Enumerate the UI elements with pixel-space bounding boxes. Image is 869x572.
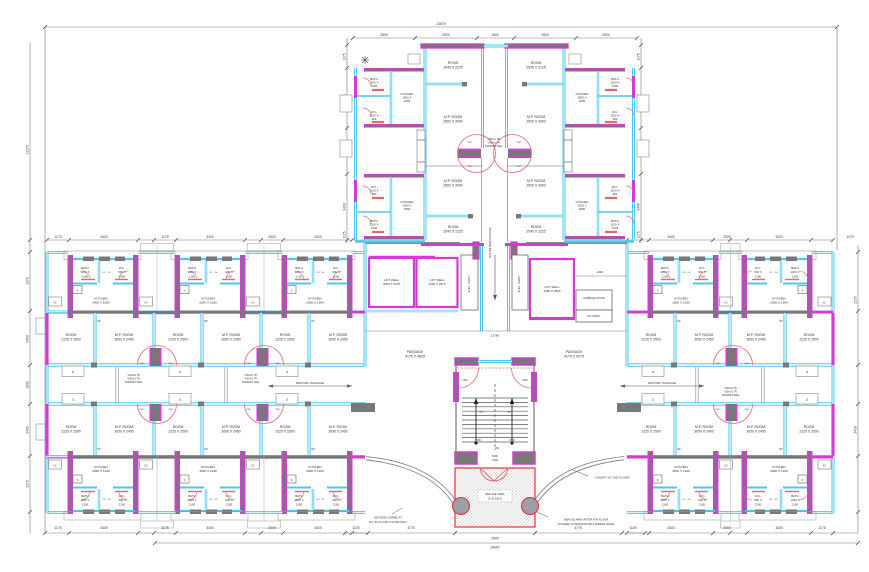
svg-text:S: S xyxy=(657,289,659,293)
svg-text:1800 MM. PASSAGE: 1800 MM. PASSAGE xyxy=(648,381,676,385)
unit L1 wall xyxy=(69,456,138,459)
svg-text:KC: KC xyxy=(724,303,728,305)
svg-text:1100: 1100 xyxy=(629,526,636,530)
unit R1 wall column xyxy=(648,451,654,514)
left wing west exterior wall xyxy=(46,252,49,513)
top wing west apartment room label xyxy=(443,225,462,233)
unit R1 bath door sill xyxy=(661,279,675,281)
recess R1/R2 kc box xyxy=(720,297,733,306)
svg-text:KC: KC xyxy=(144,303,148,305)
svg-text:2500 X 3000: 2500 X 3000 xyxy=(443,183,462,187)
top wing east apartment landing duct xyxy=(564,130,572,172)
unit L2/L3 pro labels xyxy=(247,363,281,411)
right wing wall magenta xyxy=(627,456,649,459)
top wing west apartment kitchen label xyxy=(401,92,414,103)
unit L1 top ledge xyxy=(64,251,141,260)
svg-text:1200: 1200 xyxy=(371,226,378,230)
unit R2 wall column xyxy=(807,255,813,318)
svg-text:2450: 2450 xyxy=(26,426,30,434)
west balcony box xyxy=(36,424,45,440)
unit R1 bottom window sill xyxy=(653,510,715,512)
unit L3 wall column xyxy=(347,451,353,514)
svg-text:2500: 2500 xyxy=(602,33,610,37)
svg-text:KC: KC xyxy=(53,466,57,468)
unit L1 bath door arc xyxy=(81,491,90,500)
svg-text:S: S xyxy=(184,478,186,482)
unit L1 window xyxy=(115,510,125,515)
unit L2/L3 party wall xyxy=(259,313,262,349)
center top wall xyxy=(526,242,627,244)
parapet wall line xyxy=(116,367,118,403)
svg-text:1200: 1200 xyxy=(612,84,619,88)
unit L1 door jamb xyxy=(91,402,97,407)
unit L3 bath label xyxy=(294,266,303,278)
svg-text:2545 X 2225: 2545 X 2225 xyxy=(443,229,462,233)
recess R1/R2 kc box xyxy=(720,460,733,469)
top wing east apartment door sill xyxy=(605,197,617,199)
unit R1/R2 upper door swing xyxy=(714,346,753,366)
recess L1/L2 kc box xyxy=(140,297,153,306)
unit L3 wall column xyxy=(282,451,288,514)
svg-text:3050 X 2450: 3050 X 2450 xyxy=(694,337,713,341)
top wing west apartment wall xyxy=(357,211,391,213)
svg-text:P.P. SHAFT: P.P. SHAFT xyxy=(588,315,601,318)
unit R2 top ledge xyxy=(739,251,816,260)
svg-text:1175: 1175 xyxy=(637,53,641,60)
right wing bottom dimension xyxy=(625,526,858,535)
unit L1 window xyxy=(83,257,94,262)
unit R2 shaft box xyxy=(798,286,807,294)
recess L2/L3 top box xyxy=(248,244,281,251)
svg-text:2000: 2000 xyxy=(268,526,276,530)
svg-text:2225 X 2500: 2225 X 2500 xyxy=(61,337,80,341)
east kc box xyxy=(818,460,831,469)
unit L1/L2 upper door block xyxy=(150,348,162,366)
top wing west apartment bath label xyxy=(370,77,379,88)
svg-text:PRO: PRO xyxy=(716,363,721,365)
svg-text:2000 X 1500: 2000 X 1500 xyxy=(770,301,788,305)
top wing east apartment door arc xyxy=(626,186,634,194)
svg-text:2000 X 2375: 2000 X 2375 xyxy=(383,282,400,286)
svg-text:1175: 1175 xyxy=(637,231,641,238)
top wing east apartment door sill xyxy=(605,89,617,91)
top wing east apartment wc label xyxy=(611,185,620,196)
unit R2 d3 d4 labels xyxy=(770,272,779,274)
unit R2 wc label xyxy=(754,494,762,506)
parapet wall note xyxy=(242,374,261,384)
unit L3 room divider wall xyxy=(307,406,310,455)
top wing west dimension xyxy=(343,38,350,243)
recess L2/L3 bottom box xyxy=(248,521,281,528)
unit L2 mp room label xyxy=(221,425,240,433)
unit R2 bath wall xyxy=(783,283,807,285)
svg-text:13.15 SQ.M.: 13.15 SQ.M. xyxy=(487,497,502,501)
unit L2 wc door sill xyxy=(222,491,235,493)
west kc box xyxy=(49,297,62,306)
svg-text:PRO: PRO xyxy=(247,363,252,365)
svg-text:1200: 1200 xyxy=(612,226,619,230)
lift area bottom wall xyxy=(365,310,458,313)
unit L3 kitchen label xyxy=(306,297,324,305)
unit L2 wall column xyxy=(240,255,246,318)
svg-text:1100: 1100 xyxy=(82,274,89,278)
top wing west apartment wall xyxy=(390,71,392,124)
unit R2 window xyxy=(770,510,781,515)
right wing end door block xyxy=(617,403,641,412)
unit R2 kitchen label xyxy=(770,297,788,305)
svg-text:3050 X 1400: 3050 X 1400 xyxy=(672,469,690,473)
svg-text:1100: 1100 xyxy=(226,502,233,506)
svg-text:AT EVERY ALTERNATE MID-LANDING: AT EVERY ALTERNATE MID-LANDING LEVEL xyxy=(558,522,615,526)
unit R2 wc door sill xyxy=(752,279,765,281)
svg-text:FRD: FRD xyxy=(463,379,468,382)
unit L1 window xyxy=(99,510,110,515)
top wing east apartment pro label xyxy=(517,142,522,168)
svg-text:3400: 3400 xyxy=(667,235,675,239)
canopy note xyxy=(573,470,630,480)
top wing east apartment ledge box xyxy=(637,140,649,157)
svg-text:3050 X 2450: 3050 X 2450 xyxy=(746,429,765,433)
unit L2 bath label xyxy=(187,266,196,278)
recess L2/L3 boundary line xyxy=(263,246,265,311)
unit L3 bath door arc xyxy=(295,271,304,280)
right dimension line xyxy=(854,245,861,533)
svg-text:KC: KC xyxy=(144,466,148,468)
svg-text:PRO: PRO xyxy=(140,409,145,411)
unit R1 bath door arc xyxy=(661,491,670,500)
unit R2 door jamb xyxy=(783,363,789,368)
svg-text:3400: 3400 xyxy=(667,526,675,530)
corridor arrow xyxy=(493,255,497,300)
svg-text:S: S xyxy=(184,289,186,293)
column west xyxy=(453,498,470,515)
svg-text:2545 X 2225: 2545 X 2225 xyxy=(526,229,545,233)
unit L2 top ledge xyxy=(171,251,248,260)
unit R1/R2 lower door swing xyxy=(714,404,753,424)
unit L1 mp room label xyxy=(114,333,133,341)
top wing east apartment wc label xyxy=(611,110,620,121)
unit L1 wc door arc xyxy=(119,491,128,500)
left wing wall magenta xyxy=(47,311,69,314)
lift area magenta xyxy=(369,256,435,259)
unit L3 window xyxy=(313,510,324,515)
unit L3 bath wall xyxy=(287,487,311,489)
unit R1 bath door sill xyxy=(661,491,675,493)
unit R1 window xyxy=(695,257,705,262)
top wing east apartment corridor wall xyxy=(505,48,508,148)
unit L2 window xyxy=(222,257,232,262)
unit L1 bottom ledge xyxy=(64,512,141,521)
top wing west apartment wall xyxy=(425,215,468,218)
unit R2 wc label xyxy=(754,266,762,278)
refuge label xyxy=(485,492,504,501)
unit R1/R2 pro labels xyxy=(716,363,750,411)
unit R2 wc wall xyxy=(747,283,767,285)
unit R1 wall xyxy=(649,311,718,314)
unit L3 bath door arc xyxy=(295,491,304,500)
top wing west apartment pro label xyxy=(468,142,473,168)
stair east wall column xyxy=(531,372,537,402)
unit L3 niche xyxy=(276,366,298,377)
right wing top dimension xyxy=(625,235,854,242)
unit R2 shaft box xyxy=(798,475,807,483)
unit R1 bath wall xyxy=(678,489,680,509)
top wing east apartment wall xyxy=(565,124,625,128)
svg-text:3400: 3400 xyxy=(775,526,783,530)
svg-text:PRO: PRO xyxy=(169,363,174,365)
left wing inner wall xyxy=(47,310,365,313)
unit R1 shaft box xyxy=(653,286,662,294)
top wing east apartment wall magenta xyxy=(632,180,635,202)
svg-text:2175: 2175 xyxy=(854,296,858,304)
top wing west apartment landing duct xyxy=(417,130,425,172)
svg-text:900: 900 xyxy=(372,117,377,121)
svg-text:2050 X 2375: 2050 X 2375 xyxy=(428,282,445,286)
svg-text:PRO: PRO xyxy=(745,363,750,365)
right wing inner wall xyxy=(627,310,833,313)
unit L1 wc wall xyxy=(113,283,133,285)
unit R2 window xyxy=(786,510,797,515)
svg-text:S: S xyxy=(77,289,79,293)
bottom overall dimension 34600 xyxy=(153,541,860,550)
svg-text:PRO: PRO xyxy=(140,363,145,365)
svg-text:PRO: PRO xyxy=(247,409,252,411)
svg-text:2050: 2050 xyxy=(404,207,411,211)
unit L1 bath label xyxy=(80,494,89,506)
unit R1 door jamb xyxy=(671,363,677,368)
top wing east apartment kitchen label xyxy=(576,92,589,103)
unit L2/L3 lower door swing xyxy=(245,404,284,424)
unit L1 niche xyxy=(62,394,84,405)
unit L3 bath wall xyxy=(312,261,314,283)
top wing west apartment corridor wall lower xyxy=(481,158,483,242)
svg-text:1200: 1200 xyxy=(371,84,378,88)
lift well 2 label xyxy=(428,278,445,286)
svg-text:PRO: PRO xyxy=(745,409,750,411)
svg-text:2000: 2000 xyxy=(723,526,731,530)
unit R1 bath wall xyxy=(653,487,677,489)
svg-text:PRO: PRO xyxy=(517,166,522,168)
unit L2 wall xyxy=(176,456,245,459)
top wing east apartment landing duct marks xyxy=(564,140,572,162)
svg-text:2450: 2450 xyxy=(854,426,858,434)
unit L1 wall column xyxy=(68,451,74,514)
unit R2 room divider wall xyxy=(783,313,786,364)
unit L3 wall column xyxy=(282,255,288,318)
unit R1 bath wall xyxy=(678,261,680,283)
svg-text:REFUGE AREA: REFUGE AREA xyxy=(485,492,504,496)
svg-text:S: S xyxy=(802,478,804,482)
unit R1 window xyxy=(679,510,690,515)
unit L2/L3 lower door block xyxy=(257,404,269,421)
unit L2 window xyxy=(222,510,232,515)
left wing inner wall xyxy=(47,455,365,458)
unit L1 bath door arc xyxy=(81,271,90,280)
left wing west wall magenta xyxy=(45,404,48,456)
corridor east wall xyxy=(507,243,510,331)
unit L3 top ledge xyxy=(278,251,355,260)
unit R1 kitchen label xyxy=(672,465,690,473)
unit L2 niche xyxy=(169,394,191,405)
unit L3 mp room label xyxy=(328,333,347,341)
unit L3 room label xyxy=(275,333,294,341)
corridor junction block xyxy=(511,242,517,259)
stair dim xyxy=(475,438,515,450)
svg-text:2225 X 2500: 2225 X 2500 xyxy=(61,429,80,433)
unit R2 wc door arc xyxy=(743,491,752,500)
unit R1/R2 upper door block xyxy=(726,348,738,366)
svg-text:GARBAGE CHUTE: GARBAGE CHUTE xyxy=(583,297,605,300)
west balcony box xyxy=(36,318,45,334)
top wing east apartment mp room label xyxy=(526,179,545,187)
unit L1/L2 party wall xyxy=(152,313,155,349)
refuge note xyxy=(537,512,615,526)
unit L1 mp room label xyxy=(114,425,133,433)
unit R1 wc door arc xyxy=(699,271,708,280)
left frame dimension line xyxy=(44,27,46,533)
svg-text:1175: 1175 xyxy=(161,235,168,239)
top wing east apartment room label xyxy=(526,225,545,233)
top wing east apartment door jamb xyxy=(516,214,521,218)
top wing east apartment wall xyxy=(598,211,632,213)
svg-text:KC: KC xyxy=(823,466,827,468)
unit R1 kitchen label xyxy=(672,297,690,305)
unit L2 room divider wall xyxy=(200,406,203,455)
svg-text:3050 X 2450: 3050 X 2450 xyxy=(328,429,347,433)
svg-text:3400: 3400 xyxy=(343,203,347,211)
unit L1 d3 d4 labels xyxy=(103,499,112,501)
stair up arrow west xyxy=(474,398,478,445)
passage width note xyxy=(620,381,704,388)
unit L3 window xyxy=(297,510,308,515)
svg-text:3400: 3400 xyxy=(100,235,108,239)
svg-text:PARAPET WALL: PARAPET WALL xyxy=(242,381,261,384)
svg-text:13170: 13170 xyxy=(26,145,30,154)
top wing west apartment wall xyxy=(425,165,482,167)
stair top wall west block xyxy=(455,358,478,365)
north symbol xyxy=(361,56,369,64)
svg-text:2050: 2050 xyxy=(404,99,411,103)
svg-text:3400: 3400 xyxy=(637,203,641,211)
top wing east apartment wall xyxy=(597,71,599,124)
canopy curve east xyxy=(534,457,624,504)
unit R2 wall column xyxy=(742,255,748,318)
stair door swing xyxy=(459,368,479,388)
svg-text:3400: 3400 xyxy=(314,235,322,239)
parapet wall note xyxy=(125,374,144,384)
unit L1 bottom window sill xyxy=(73,510,135,512)
unit L3 bottom window sill xyxy=(287,510,349,512)
top wing east apartment wall xyxy=(565,68,625,72)
svg-text:2000 X 1500: 2000 X 1500 xyxy=(92,301,110,305)
unit L3 mp room label xyxy=(328,425,347,433)
svg-text:KC: KC xyxy=(823,303,827,305)
svg-text:1100: 1100 xyxy=(699,274,706,278)
unit R1 room label xyxy=(641,425,660,433)
svg-text:1175: 1175 xyxy=(846,235,853,239)
svg-text:3400: 3400 xyxy=(314,526,322,530)
svg-text:2370: 2370 xyxy=(26,480,30,488)
svg-text:PRO: PRO xyxy=(716,409,721,411)
top wing west apartment wall xyxy=(364,124,424,128)
top wing west apartment wall magenta xyxy=(354,76,357,98)
svg-text:DP: DP xyxy=(97,320,101,323)
svg-text:2000 X 1500: 2000 X 1500 xyxy=(672,301,690,305)
left wing bottom wall west end xyxy=(47,511,68,514)
svg-text:DP: DP xyxy=(311,320,315,323)
unit L2 window xyxy=(190,510,201,515)
unit R2 bath wall xyxy=(780,261,782,283)
top wing west apartment kitchen label xyxy=(401,200,414,211)
svg-text:CANOPY AT 2ND FLOOR: CANOPY AT 2ND FLOOR xyxy=(595,476,631,480)
recess L1/L2 top box xyxy=(141,244,174,251)
unit L3 bath label xyxy=(294,494,303,506)
east kc box xyxy=(818,297,831,306)
right wing bottom wall west end xyxy=(627,511,649,514)
top wing west apartment bath label xyxy=(370,219,379,230)
svg-text:S: S xyxy=(291,289,293,293)
recess R1/R2 top box xyxy=(721,244,741,251)
recess L2/L3 wall xyxy=(246,311,283,314)
right wing east wall magenta xyxy=(831,313,834,365)
svg-text:KC: KC xyxy=(724,466,728,468)
unit R2 niche xyxy=(796,394,818,405)
svg-text:S: S xyxy=(77,478,79,482)
svg-text:4775: 4775 xyxy=(407,526,415,530)
svg-text:1100: 1100 xyxy=(352,526,359,530)
unit L2 bath label xyxy=(187,494,196,506)
unit R2 wall xyxy=(742,456,811,459)
unit L3 window xyxy=(329,510,339,515)
unit L1 room divider wall xyxy=(93,406,96,455)
top wing west apartment door jamb xyxy=(462,82,467,86)
unit R2 door jamb xyxy=(783,402,789,407)
svg-text:1800: 1800 xyxy=(26,381,30,389)
unit L2 wall column xyxy=(175,451,181,514)
unit L1 wc label xyxy=(118,494,126,506)
svg-text:900: 900 xyxy=(372,192,377,196)
unit L3 room divider wall xyxy=(307,313,310,364)
unit L3 door jamb xyxy=(305,363,311,368)
unit R2 bath door arc xyxy=(799,271,808,280)
unit R2 window xyxy=(755,510,765,515)
unit L2 top window sill xyxy=(180,258,242,260)
unit R2 wc wall xyxy=(747,487,767,489)
top wing east apartment wall xyxy=(507,165,564,167)
top wing west apartment top wall xyxy=(421,44,484,48)
recess L1/L2 boundary line xyxy=(156,456,158,521)
unit L3 wall xyxy=(283,311,352,314)
svg-text:1100: 1100 xyxy=(755,502,762,506)
svg-text:200 WIDE CORBEL AT: 200 WIDE CORBEL AT xyxy=(374,516,402,520)
svg-text:1100: 1100 xyxy=(296,274,303,278)
recess L2/L3 boundary line xyxy=(263,456,265,521)
unit R1 wall column xyxy=(713,255,719,318)
svg-text:PASSAGE: PASSAGE xyxy=(407,350,424,354)
unit L2/L3 party wall xyxy=(259,420,262,455)
unit L2 kitchen label xyxy=(199,465,217,473)
top wing west apartment door sill xyxy=(372,89,384,91)
unit L3 window xyxy=(329,257,339,262)
right wing inner wall xyxy=(627,455,833,458)
svg-text:UP: UP xyxy=(507,411,511,414)
svg-text:DP: DP xyxy=(779,448,783,451)
unit L2/L3 upper door swing xyxy=(245,346,284,366)
svg-text:PRO: PRO xyxy=(276,363,281,365)
svg-text:2225 X 2500: 2225 X 2500 xyxy=(168,429,187,433)
right wing east wall magenta xyxy=(831,404,834,456)
left wing wall magenta xyxy=(353,311,366,314)
